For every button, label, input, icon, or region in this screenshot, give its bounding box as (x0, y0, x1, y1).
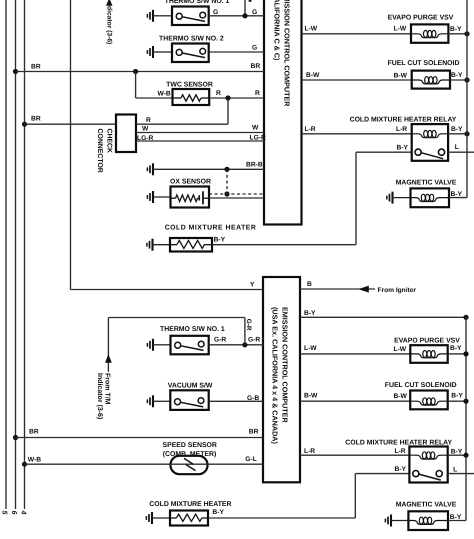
svg-text:B-Y: B-Y (450, 345, 462, 352)
svg-text:EVAPO PURGE VSV: EVAPO PURGE VSV (388, 15, 454, 22)
svg-text:COLD MIXTURE HEATER: COLD MIXTURE HEATER (149, 501, 231, 508)
svg-text:B-Y: B-Y (212, 509, 224, 516)
svg-text:R: R (255, 90, 260, 97)
svg-text:SPEED SENSOR: SPEED SENSOR (163, 442, 217, 449)
svg-text:B-Y: B-Y (395, 466, 407, 473)
svg-text:From T/M: From T/M (104, 373, 112, 405)
svg-text:4: 4 (19, 510, 26, 515)
svg-text:COLD MIXTURE HEATER RELAY: COLD MIXTURE HEATER RELAY (350, 117, 457, 124)
svg-text:R: R (146, 117, 151, 124)
svg-text:L-W: L-W (305, 25, 318, 32)
svg-text:6: 6 (10, 511, 17, 515)
svg-text:R: R (216, 90, 221, 97)
svg-text:EMISSION CONTROL COMPUTER: EMISSION CONTROL COMPUTER (283, 0, 292, 107)
svg-text:EVAPO PURGE VSV: EVAPO PURGE VSV (394, 337, 460, 344)
svg-text:W: W (142, 125, 149, 132)
svg-text:L: L (453, 466, 457, 473)
svg-text:L: L (455, 144, 459, 151)
svg-text:G: G (213, 9, 218, 16)
svg-text:LG-R: LG-R (250, 135, 267, 142)
svg-text:5: 5 (1, 511, 8, 515)
svg-text:L-R: L-R (395, 448, 406, 455)
svg-text:L-W: L-W (394, 26, 407, 33)
svg-text:THERMO S/W NO. 1: THERMO S/W NO. 1 (160, 326, 225, 333)
svg-text:BR: BR (31, 63, 41, 70)
svg-text:COLD MIXTURE HEATER RELAY: COLD MIXTURE HEATER RELAY (345, 439, 452, 446)
svg-text:EMISSION CONTROL COMPUTER: EMISSION CONTROL COMPUTER (281, 307, 290, 423)
svg-text:COLD MIXTURE HEATER: COLD MIXTURE HEATER (165, 224, 257, 231)
svg-text:B: B (307, 281, 312, 288)
svg-text:G: G (252, 44, 257, 51)
svg-text:BR: BR (249, 429, 259, 436)
svg-text:BR: BR (251, 63, 261, 70)
svg-text:B-W: B-W (306, 72, 320, 79)
svg-text:CONNECTOR: CONNECTOR (96, 129, 103, 173)
svg-text:G-L: G-L (245, 456, 257, 463)
svg-text:BR: BR (31, 115, 41, 122)
svg-text:B-Y: B-Y (397, 145, 409, 152)
svg-text:FUEL CUT SOLENOID: FUEL CUT SOLENOID (385, 382, 457, 389)
svg-text:G-R: G-R (245, 319, 252, 331)
svg-text:W: W (252, 124, 259, 131)
svg-text:FUEL CUT SOLENOID: FUEL CUT SOLENOID (388, 60, 460, 67)
svg-text:dicator (3-6): dicator (3-6) (105, 6, 112, 44)
svg-text:BR: BR (29, 429, 39, 436)
svg-text:L-W: L-W (304, 345, 317, 352)
svg-text:Indicator (3-6): Indicator (3-6) (96, 373, 104, 419)
svg-text:THERMO S/W NO. 1: THERMO S/W NO. 1 (165, 0, 230, 5)
svg-text:B-W: B-W (304, 393, 318, 400)
svg-text:G-R: G-R (248, 336, 260, 343)
svg-text:W-B: W-B (158, 91, 171, 98)
svg-text:MAGNETIC VALVE: MAGNETIC VALVE (396, 180, 457, 187)
svg-text:B-Y: B-Y (451, 72, 463, 79)
svg-text:B-Y: B-Y (304, 310, 316, 317)
svg-text:G-R: G-R (214, 336, 226, 343)
svg-text:From Igniter: From Igniter (378, 287, 417, 294)
svg-text:(USA Ex. CALIFORNIA 4 x 4 & CA: (USA Ex. CALIFORNIA 4 x 4 & CANADA) (271, 307, 280, 444)
svg-text:L-W: L-W (394, 346, 407, 353)
svg-text:W-B: W-B (28, 456, 41, 463)
svg-text:B-W: B-W (394, 73, 408, 80)
svg-text:TWC SENSOR: TWC SENSOR (166, 81, 213, 88)
svg-text:G: G (252, 9, 257, 16)
svg-text:Y: Y (250, 282, 255, 289)
svg-text:B-Y: B-Y (214, 237, 226, 244)
svg-text:BR-B: BR-B (246, 161, 263, 168)
svg-text:B-Y: B-Y (451, 448, 463, 455)
svg-text:VACUUM S/W: VACUUM S/W (168, 383, 213, 390)
svg-text:G-B: G-B (247, 395, 259, 402)
svg-text:CHECK: CHECK (106, 129, 113, 154)
svg-text:B-Y: B-Y (451, 392, 463, 399)
svg-text:L-R: L-R (396, 126, 407, 133)
svg-text:OX SENSOR: OX SENSOR (170, 179, 211, 186)
svg-text:(CALIFORNIA C & C): (CALIFORNIA C & C) (272, 0, 281, 61)
svg-text:THERMO S/W NO. 2: THERMO S/W NO. 2 (159, 35, 224, 42)
svg-text:B-W: B-W (394, 393, 408, 400)
svg-text:L-R: L-R (304, 448, 315, 455)
svg-text:B-Y: B-Y (450, 26, 462, 33)
svg-text:LG-R: LG-R (137, 135, 154, 142)
svg-text:MAGNETIC VALVE: MAGNETIC VALVE (396, 502, 457, 509)
svg-text:L-R: L-R (305, 126, 316, 133)
svg-text:B-Y: B-Y (451, 126, 463, 133)
